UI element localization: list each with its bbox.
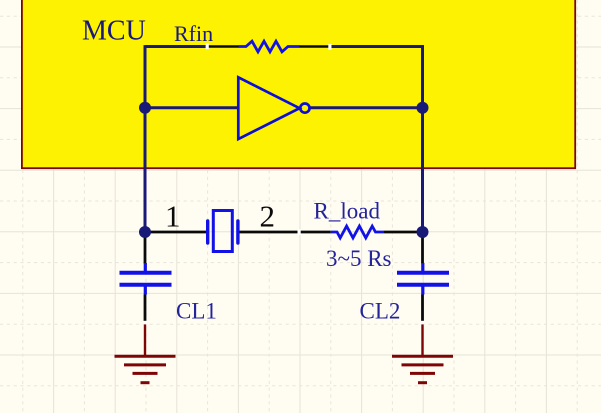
ground symbol right — [392, 324, 453, 382]
wire R_load to node2 (black) — [384, 231, 423, 234]
capacitor CL1 — [120, 263, 172, 295]
svg-text:R_load: R_load — [314, 199, 381, 224]
junction at inverter output right — [417, 102, 429, 114]
resistor R_load — [331, 226, 384, 238]
svg-text:MCU: MCU — [82, 16, 146, 47]
wire node2 down to CL2 (black) — [421, 232, 424, 264]
resistor Rfin — [239, 41, 300, 52]
MCU block rectangle — [22, 0, 575, 168]
svg-text:CL2: CL2 — [360, 298, 401, 323]
ground symbol left — [115, 324, 176, 382]
wire node1 down to CL1 (black) — [144, 232, 147, 264]
pin hotspot marker left of Rfin — [206, 43, 209, 49]
wire inverter input — [145, 106, 238, 109]
wire node1 to crystal (black) — [145, 231, 206, 234]
junction at inverter input — [139, 102, 151, 114]
capacitor CL2 — [397, 263, 449, 295]
wire top-left horizontal — [145, 45, 207, 48]
inverter U1 triangle — [238, 77, 299, 139]
pin hotspot marker left of R_load — [298, 229, 301, 235]
wire right vertical lower — [421, 108, 424, 232]
wire crystal to R_load (black) — [239, 231, 330, 234]
junction node 1 — [139, 226, 151, 238]
svg-text:3~5 Rs: 3~5 Rs — [326, 246, 392, 271]
pin 1 of Rfin (left, black) — [207, 45, 239, 47]
inverter U1 output bubble — [300, 104, 309, 113]
wire CL2 to ground (black) — [421, 295, 424, 323]
wire inverter output — [310, 106, 423, 109]
pin 2 of Rfin (right, black) — [300, 45, 331, 47]
crystal Y1 — [208, 211, 238, 252]
svg-text:CL1: CL1 — [176, 298, 217, 323]
wire right vertical upper — [421, 45, 424, 108]
junction node 2 right — [417, 226, 429, 238]
wire left vertical — [144, 45, 147, 232]
pin hotspot marker right of Rfin — [328, 44, 331, 50]
pin hotspot marker below CL2 — [421, 321, 424, 325]
wire top-right horizontal — [331, 45, 424, 48]
svg-text:Rfin: Rfin — [174, 21, 213, 46]
wire CL1 to ground (black) — [144, 295, 147, 323]
pin hotspot marker below CL1 — [143, 321, 146, 325]
svg-text:2: 2 — [260, 199, 276, 234]
svg-text:1: 1 — [165, 199, 181, 234]
